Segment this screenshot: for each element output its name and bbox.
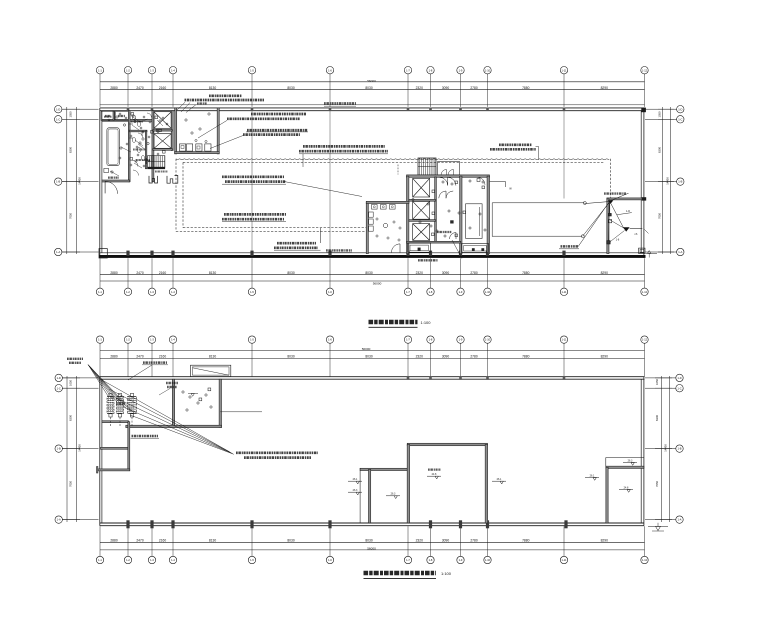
level mark right penthouse inner (plan2) — [619, 486, 633, 492]
svg-text:1-D: 1-D — [56, 107, 60, 111]
svg-text:2470: 2470 — [136, 539, 144, 543]
grid axis 1-5 top (plan2) — [248, 336, 255, 377]
cable tray dashed route 2 (plan1) — [183, 161, 604, 163]
T6 underline (plan1) — [299, 153, 388, 155]
annotation T4 line2 (plan1) — [243, 133, 300, 136]
column stub bottom wall x252 (plan1) — [250, 251, 253, 256]
elevator shaft 1 (plan1) — [154, 112, 171, 129]
annex inner room rect (plan1) — [466, 204, 483, 239]
cable tray dashed left edge a (plan1) — [175, 159, 177, 232]
bottom dimension line segments (plan1) — [100, 274, 645, 276]
svg-text:8030: 8030 — [365, 355, 373, 359]
svg-text:26.1: 26.1 — [590, 474, 595, 477]
stair bulkhead divider wall x173 (plan2) — [172, 379, 174, 427]
row axis 1-C left (plan1) — [55, 116, 99, 123]
svg-text:56000: 56000 — [367, 546, 376, 550]
grid axis 1-4 top (plan1) — [169, 67, 176, 107]
grid axis 1-5 bottom (plan2) — [248, 526, 255, 564]
svg-text:1-9: 1-9 — [459, 558, 463, 562]
row axis 1-D right (plan2) — [645, 374, 683, 381]
grid axis 1-12 top (plan1) — [641, 67, 648, 107]
grid axis 1-8 bottom (plan2) — [427, 526, 434, 564]
annex inner vline (plan1) — [479, 207, 481, 236]
bottom label b toward substation (plan1) — [326, 250, 352, 252]
row axis 1-B left (plan2) — [55, 445, 99, 452]
svg-text:1-1: 1-1 — [98, 290, 102, 294]
toilet left wall (plan1) — [366, 202, 368, 253]
column line 1-11 upper part (plan1) — [563, 111, 565, 199]
svg-text:14400: 14400 — [78, 444, 82, 452]
svg-text:8130: 8130 — [209, 355, 217, 359]
top dimension line overall (plan2) — [100, 349, 645, 351]
grid axis 1-6 top (plan2) — [326, 336, 333, 377]
grid axis 1-3 bottom (plan1) — [148, 258, 155, 295]
annotation D line2 (plan1) — [222, 218, 284, 221]
T2 sub-mark (plan1) — [197, 102, 207, 104]
T6 leader drop (plan1) — [302, 154, 304, 167]
row axis 1-D left (plan1) — [55, 106, 99, 113]
row axis 1-B left (plan1) — [55, 178, 99, 185]
svg-text:2880: 2880 — [110, 271, 118, 275]
extra fixtures left block (plan1) — [108, 113, 168, 166]
T4 leader (plan1) — [210, 136, 243, 149]
level mark right of big box (plan2) — [492, 478, 506, 484]
column stub bottom wall x487.5 (plan2) — [486, 520, 489, 528]
grid axis 1-12 bottom (plan2) — [641, 526, 648, 564]
title plan2 text — [364, 571, 437, 576]
svg-text:1-8: 1-8 — [429, 290, 433, 294]
strip centre label (plan2) — [116, 403, 125, 405]
cable tray dashed right drop (plan1) — [610, 159, 612, 198]
fan line long left (plan1) — [583, 202, 610, 236]
ground-grid label (plan2) — [131, 436, 160, 438]
annex top door arc (plan1) — [478, 177, 486, 185]
svg-text:1-11: 1-11 — [562, 68, 568, 72]
left vertical dim chain (plan1) — [62, 107, 82, 254]
svg-text:2470: 2470 — [136, 86, 144, 90]
svg-text:26.1: 26.1 — [353, 478, 358, 481]
svg-text:8130: 8130 — [209, 86, 217, 90]
svg-text:8030: 8030 — [365, 539, 373, 543]
fan room top wall (plan1) — [607, 198, 642, 200]
svg-text:7050: 7050 — [69, 481, 73, 487]
svg-text:1-5: 1-5 — [250, 558, 254, 562]
dashed stub near stair (plan1) — [397, 165, 399, 175]
svg-text:26.3: 26.3 — [628, 459, 633, 462]
core top wall (plan1) — [407, 175, 490, 177]
elevator shaft 2 (plan1) — [154, 134, 171, 149]
svg-text:56000: 56000 — [367, 79, 376, 83]
label 1-D with bar (plan1) — [617, 210, 632, 215]
grid axis 1-6 bottom (plan1) — [326, 258, 333, 295]
grid axis 1-11 bottom (plan2) — [560, 526, 567, 564]
riser blob 2 (plan1) — [623, 227, 630, 231]
svg-text:1-11: 1-11 — [562, 290, 568, 294]
svg-text:1-9: 1-9 — [459, 68, 463, 72]
svg-text:6300: 6300 — [655, 415, 659, 421]
cable tray dashed bottom b (plan1) — [176, 230, 367, 232]
svg-text:1-2: 1-2 — [126, 68, 130, 72]
D underline (plan1) — [222, 221, 286, 223]
svg-text:1-3: 1-3 — [150, 290, 154, 294]
tank room label — [108, 177, 119, 179]
svg-text:8130: 8130 — [209, 539, 217, 543]
svg-text:8290: 8290 — [601, 86, 609, 90]
svg-text:1-5: 1-5 — [250, 338, 254, 342]
svg-text:6300: 6300 — [658, 147, 662, 153]
fan room corner block (plan1) — [642, 197, 646, 200]
wall x152 left block (plan1) — [152, 111, 154, 182]
toilet stalls left (plan1) — [369, 212, 374, 231]
wall row B left block (plan1) — [102, 180, 130, 182]
fan line to box y214 (plan1) — [609, 202, 611, 213]
svg-text:8030: 8030 — [365, 271, 373, 275]
row axis 1-D right (plan1) — [645, 106, 684, 113]
svg-text:1-2: 1-2 — [126, 558, 130, 562]
grid axis 1-1 bottom (plan1) — [96, 258, 103, 295]
T4 underline (plan1) — [246, 131, 308, 133]
svg-text:24.8: 24.8 — [432, 473, 437, 476]
hatched anchor strip 1 (plan2) — [107, 397, 114, 414]
svg-text:1-3: 1-3 — [150, 68, 154, 72]
diag blob2 to lower box (plan1) — [610, 231, 625, 243]
level mark left outside lower (plan2) — [348, 489, 362, 495]
column stub bottom wall x173 (plan2) — [171, 520, 174, 528]
core inner wall y200 (plan1) — [409, 199, 436, 201]
grid axis 1-8 bottom (plan1) — [427, 258, 434, 295]
svg-text:8030: 8030 — [287, 271, 295, 275]
cross line blob2 to wallbox (plan1) — [610, 220, 625, 229]
svg-text:1-A: 1-A — [57, 518, 61, 522]
column stub bottom wall x330 (plan1) — [328, 251, 331, 256]
toilet small symbols (plan1) — [376, 218, 401, 241]
column stub bottom wall x430.5 (plan1) — [429, 251, 432, 256]
svg-text:3090: 3090 — [442, 355, 450, 359]
svg-text:1-D: 1-D — [57, 376, 61, 380]
svg-text:8030: 8030 — [365, 86, 373, 90]
grid axis 1-2 bottom (plan1) — [124, 258, 131, 295]
annotation E line1 (plan1) — [277, 242, 316, 245]
svg-text:2880: 2880 — [110, 355, 118, 359]
AV room cell1 (plan1) — [101, 111, 114, 120]
right penthouse outer (plan2) — [606, 458, 644, 524]
riser point blob (plan1) — [608, 200, 614, 204]
title plan1 text — [369, 320, 418, 325]
column stub bottom wall x566 (plan2) — [564, 520, 567, 528]
svg-text:1-12: 1-12 — [642, 68, 648, 72]
riser label above (plan1) — [604, 192, 626, 194]
level mark bottom-right outside (plan1) — [646, 251, 658, 258]
top dimension line segments (plan2) — [100, 357, 645, 359]
svg-text:8290: 8290 — [601, 355, 609, 359]
annotation T4 line1 (plan1) — [247, 129, 308, 132]
annotation C line2 (plan1) — [225, 180, 286, 183]
svg-text:1-D: 1-D — [677, 376, 681, 380]
row axis 1-D left (plan2) — [55, 374, 99, 381]
svg-text:1-6: 1-6 — [328, 290, 332, 294]
grid axis 1-2 top (plan2) — [124, 336, 131, 377]
column stub top wall x408 (plan1) — [407, 108, 410, 111]
svg-text:1-1: 1-1 — [98, 558, 102, 562]
cable tray dashed left edge b (plan1) — [182, 162, 184, 227]
stair landing heavy wall (plan1) — [147, 167, 165, 169]
wc fixtures (plan1) — [132, 115, 144, 160]
wall box a (plan1) — [608, 213, 611, 216]
column stub top wall x408 (plan2) — [407, 376, 410, 380]
svg-text:2780: 2780 — [470, 539, 478, 543]
core inner wall y242 (plan1) — [407, 241, 461, 243]
cable tray dashed bottom a (plan1) — [183, 227, 367, 229]
svg-text:26.3: 26.3 — [353, 489, 358, 492]
building top wall (plan1) — [100, 108, 645, 111]
stair core outline (plan1) — [418, 158, 436, 175]
penthouse big box (plan2) — [407, 443, 488, 523]
toilet sinks row (plan1) — [372, 205, 396, 210]
strip 3 terminal squares (plan2) — [130, 393, 133, 426]
svg-text:1-D: 1-D — [678, 107, 682, 111]
svg-text:2320: 2320 — [416, 86, 424, 90]
building left wall (plan1) — [100, 108, 102, 258]
svg-text:1-4: 1-4 — [171, 558, 175, 562]
row axis 1-A left (plan2) — [55, 516, 99, 523]
annotation T7 line1 (plan1) — [499, 143, 532, 146]
svg-text:6300: 6300 — [68, 147, 72, 153]
svg-text:1050: 1050 — [69, 380, 73, 386]
row axis 1-A left (plan1) — [55, 248, 99, 255]
distribution panels row (plan1) — [180, 144, 212, 151]
door arc corridor low (plan1) — [450, 233, 457, 240]
label AV1 — [105, 115, 111, 117]
column stub bottom wall x430.5 (plan2) — [429, 520, 432, 528]
building bottom wall heavy (plan1) — [99, 253, 646, 258]
annotation D line1 (plan1) — [224, 213, 286, 216]
level mark right penthouse top (plan2) — [623, 459, 637, 465]
fixtures duty room (plan1) — [185, 113, 210, 143]
fixtures core block (plan1) — [412, 180, 486, 237]
svg-text:1-11: 1-11 — [562, 338, 568, 342]
svg-text:1:100: 1:100 — [441, 571, 452, 576]
annotation T2 line2 (plan1) — [185, 99, 265, 102]
annotation T7 line2 (plan1) — [490, 148, 536, 151]
level mark small box (plan2) — [386, 493, 400, 499]
stair upper flight (plan1) — [148, 156, 165, 168]
svg-text:1-3: 1-3 — [150, 338, 154, 342]
grid axis 1-2 bottom (plan2) — [124, 526, 131, 564]
grid axis 1-9 top (plan2) — [457, 336, 464, 377]
svg-text:1-B: 1-B — [57, 447, 61, 451]
grid axis 1-11 bottom (plan1) — [560, 258, 567, 295]
svg-text:56000: 56000 — [373, 281, 382, 285]
equip leader line right (plan2) — [220, 411, 262, 413]
svg-text:1-D: 1-D — [626, 210, 630, 213]
svg-text:1-C: 1-C — [677, 386, 681, 390]
svg-text:14400: 14400 — [664, 444, 668, 452]
grid axis 1-10 top (plan2) — [484, 336, 491, 377]
benchmark box corner (plan1) — [639, 248, 645, 253]
left vertical dim chain (plan2) — [62, 376, 82, 522]
svg-text:1-6: 1-6 — [328, 558, 332, 562]
column stub bottom wall x173 (plan1) — [171, 251, 174, 256]
svg-text:1-12: 1-12 — [642, 290, 648, 294]
toilet small wall stubs (plan1) — [129, 124, 146, 164]
leader through bottom wall (plan1) — [452, 240, 462, 259]
column stub bottom wall x564 (plan1) — [562, 251, 565, 256]
C underline (plan1) — [222, 183, 286, 185]
grid axis 1-1 bottom (plan2) — [96, 526, 103, 564]
column stub top wall x430.5 (plan2) — [429, 376, 432, 380]
grid axis 1-10 bottom (plan1) — [484, 258, 491, 295]
svg-text:1-4: 1-4 — [171, 290, 175, 294]
column stub top wall x564 (plan1) — [563, 108, 566, 111]
svg-text:1-A: 1-A — [677, 518, 681, 522]
row axis 1-A right (plan1) — [645, 248, 684, 255]
roof overhang line (plan1) — [100, 104, 645, 106]
svg-text:2880: 2880 — [110, 86, 118, 90]
grid axis 1-2 top (plan1) — [124, 67, 131, 107]
lower annex east wall (plan2) — [128, 422, 130, 471]
open area boundary rect (plan1) — [492, 203, 584, 237]
elevator machine slot (plan1) — [153, 129, 172, 131]
column buttress 2 below stair (plan1) — [167, 176, 178, 184]
level mark left outside upper (plan2) — [348, 478, 362, 484]
equipment boxes core (plan1) — [432, 181, 466, 237]
row axis 1-A right (plan2) — [645, 516, 683, 523]
row axis 1-B right (plan2) — [645, 445, 683, 452]
svg-text:1-C: 1-C — [678, 117, 682, 121]
svg-text:26.1: 26.1 — [497, 478, 502, 481]
stair landing wall mid (plan2) — [101, 447, 129, 449]
corridor label walkway (plan1) — [324, 103, 356, 106]
svg-text:1-8: 1-8 — [429, 338, 433, 342]
duty room bottom wall (plan1) — [175, 152, 220, 154]
svg-text:1-7: 1-7 — [406, 338, 410, 342]
svg-text:7880: 7880 — [522, 539, 530, 543]
fire-control label (plan1) — [559, 246, 579, 248]
grid axis 1-7 top (plan1) — [404, 67, 411, 107]
wall below shaft2 (plan1) — [153, 149, 172, 151]
corner column bottom-left (plan1) — [99, 249, 107, 258]
level mark big box (plan2) — [427, 470, 441, 479]
extra leader scribbles left block (plan1) — [110, 117, 163, 176]
corridor equipment blob (plan1) — [450, 220, 453, 223]
svg-text:1-1: 1-1 — [98, 338, 102, 342]
vest room right of stair (plan1) — [438, 162, 460, 176]
svg-text:8030: 8030 — [287, 86, 295, 90]
louvre cell 1 bottom (plan1) — [408, 243, 431, 252]
svg-text:1-5: 1-5 — [250, 290, 254, 294]
top dimension line overall (plan1) — [100, 81, 645, 83]
long leader bundle to note (plan2) — [102, 380, 234, 454]
core left wall (plan1) — [407, 176, 409, 254]
lower annex bottom wall (plan2) — [97, 469, 130, 471]
annotation T6 line1 (plan1) — [303, 145, 385, 148]
fan line to fire ctrl label (plan1) — [578, 203, 609, 247]
grid axis 1-11 top (plan2) — [560, 336, 567, 377]
annotation T2 line1 (plan1) — [209, 94, 242, 97]
svg-text:2160: 2160 — [159, 355, 167, 359]
bottom dimension line segments (plan2) — [100, 541, 645, 543]
fan line up-right tick (plan1) — [611, 193, 629, 200]
elevator shaft right wall x172 (plan1) — [171, 111, 173, 151]
fan room left wall (plan1) — [607, 199, 609, 254]
column stub bottom wall x152 (plan2) — [150, 520, 153, 528]
bottom dimension line overall (plan2) — [100, 549, 645, 551]
roof note line1 (plan2) — [236, 451, 318, 454]
grid axis 1-12 bottom (plan1) — [641, 258, 648, 295]
svg-text:56000: 56000 — [362, 347, 371, 351]
tray leader to spec text (plan1) — [319, 228, 321, 243]
top dimension line segments (plan1) — [100, 89, 645, 91]
svg-text:1-5: 1-5 — [250, 68, 254, 72]
svg-text:1-7: 1-7 — [406, 290, 410, 294]
svg-text:1050: 1050 — [658, 111, 662, 117]
svg-text:2880: 2880 — [110, 539, 118, 543]
svg-text:26.3: 26.3 — [391, 493, 396, 496]
toilet centre fixture (plan1) — [383, 223, 387, 227]
T7 leader drop (plan1) — [536, 147, 539, 160]
column stub bottom wall x252 (plan2) — [250, 520, 253, 528]
T2 leader b (plan1) — [181, 103, 190, 112]
row axis 1-C right (plan2) — [645, 385, 683, 392]
air-terminal label (plan2) — [159, 383, 178, 395]
grid axis 1-12 top (plan2) — [641, 336, 648, 377]
tick outside right wall (plan1) — [645, 230, 649, 234]
shaft B with cross (plan1) — [413, 201, 430, 219]
right vertical dim chain (plan2) — [655, 376, 672, 522]
title plan2 underline — [364, 577, 437, 579]
T2 leader c (plan1) — [186, 105, 196, 113]
svg-text:2160: 2160 — [159, 539, 167, 543]
duty room left wall (plan1) — [175, 108, 177, 154]
grid axis 1-9 bottom (plan1) — [457, 258, 464, 295]
svg-text:1-7: 1-7 — [406, 558, 410, 562]
column stub top wall x487.5 (plan2) — [486, 376, 489, 380]
roof label T11 (plan2) — [128, 363, 168, 380]
column buttress 1 below stair (plan1) — [149, 176, 158, 183]
svg-text:1-10: 1-10 — [485, 68, 491, 72]
svg-text:2780: 2780 — [470, 86, 478, 90]
svg-text:1-A: 1-A — [56, 250, 60, 254]
toilet door arc (plan1) — [392, 244, 401, 253]
AV room cell2 (plan1) — [115, 111, 128, 120]
level mark machine room (plan2) — [188, 394, 198, 397]
column stub bottom wall x330 (plan2) — [328, 520, 331, 528]
grid axis 1-5 bottom (plan1) — [248, 258, 255, 295]
svg-text:1-6: 1-6 — [328, 68, 332, 72]
column stub top wall x128 (plan1) — [127, 108, 130, 111]
building top wall (plan2) — [100, 377, 645, 380]
grid axis 1-8 top (plan2) — [427, 336, 434, 377]
hatched anchor strip 3 (plan2) — [128, 397, 137, 414]
grid axis 1-7 top (plan2) — [404, 336, 411, 377]
left chamber bottom wall (plan2) — [102, 421, 129, 423]
svg-text:7880: 7880 — [522, 355, 530, 359]
svg-text:1050: 1050 — [655, 379, 659, 385]
terminal symbol bottom (plan1) — [581, 235, 584, 238]
column line 1-5 through hall (plan1) — [251, 111, 253, 253]
column stub top wall x460.5 (plan2) — [459, 376, 462, 380]
svg-text:8030: 8030 — [287, 355, 295, 359]
column stub top wall x460.5 (plan1) — [459, 108, 462, 111]
small cabinet in tank room (plan1) — [104, 168, 109, 172]
label AV2 — [118, 115, 125, 117]
toilet top wall (plan1) — [366, 201, 409, 203]
grid axis 1-3 bottom (plan2) — [148, 526, 155, 564]
wall below AV rooms divider (plan1) — [113, 111, 115, 121]
right vertical dim chain (plan1) — [658, 107, 674, 254]
svg-text:1-7: 1-7 — [406, 68, 410, 72]
column stub top wall x430.5 (plan1) — [429, 108, 432, 111]
